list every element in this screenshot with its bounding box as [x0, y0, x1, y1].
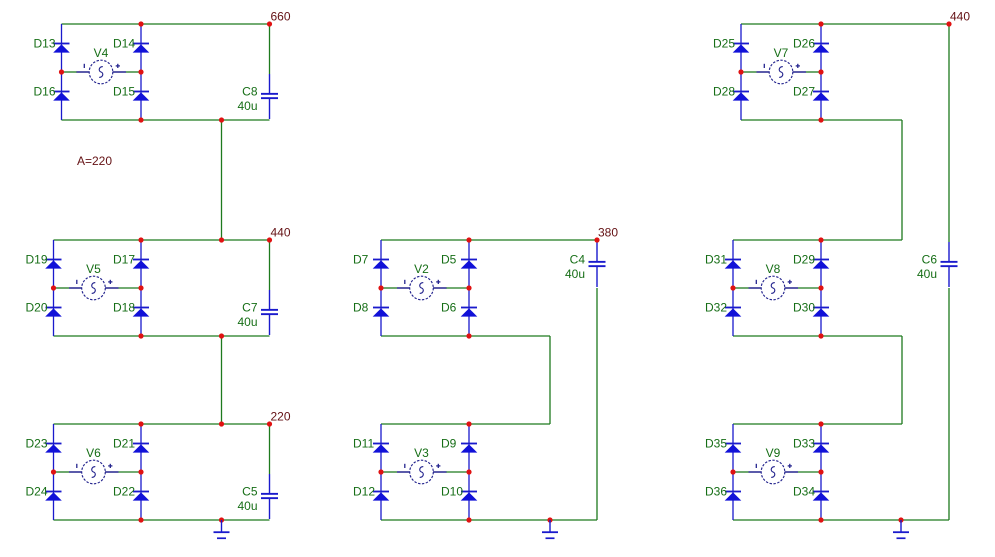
diode D35 — [725, 443, 742, 453]
svg-text:D32: D32 — [705, 301, 727, 315]
svg-text:40u: 40u — [237, 99, 257, 113]
wire right vertical upper (440 net) — [948, 24, 950, 242]
junction node (733,288) — [730, 285, 735, 290]
junction node (821,336) — [818, 333, 823, 338]
diode D26 — [813, 43, 830, 53]
wire cap C8 branch upper — [269, 24, 271, 74]
svg-text:D9: D9 — [441, 437, 457, 451]
wire top rail V4 stage — [62, 23, 270, 25]
minus mark V9 — [755, 464, 757, 468]
wire right vertical lower — [948, 288, 950, 520]
wire diode column D11/D12 (blue) — [380, 424, 382, 520]
wire bottom rail V2 stage — [381, 335, 550, 337]
junction node (469,336) — [466, 333, 471, 338]
wire link 440-stage to 220-stage — [221, 336, 223, 424]
junction node (733,472) — [730, 469, 735, 474]
svg-text:V5: V5 — [86, 262, 101, 276]
svg-text:D29: D29 — [793, 253, 815, 267]
diode D18 — [133, 307, 150, 317]
svg-text:D14: D14 — [113, 37, 135, 51]
svg-text:40u: 40u — [237, 315, 257, 329]
diode D34 — [813, 491, 830, 501]
diode D31 — [725, 259, 742, 269]
wire V6 left stub — [54, 471, 70, 473]
diode D30 — [813, 307, 830, 317]
diode D14 — [133, 43, 150, 53]
plus mark V9 — [788, 464, 792, 468]
wire diode column D25/D28 (blue) — [740, 24, 742, 120]
capacitor C4 — [589, 242, 606, 287]
svg-text:D13: D13 — [34, 37, 56, 51]
svg-text:D35: D35 — [705, 437, 727, 451]
wire cap C4 branch lower — [596, 288, 598, 520]
diode D8 — [373, 307, 390, 317]
svg-text:D12: D12 — [353, 485, 375, 499]
ground — [214, 520, 230, 539]
junction node (53.5,472) — [51, 469, 56, 474]
wire diode column D13/D16 (blue) — [61, 24, 63, 120]
junction node (221.5,424) — [219, 421, 224, 426]
junction node (141,336) — [138, 333, 143, 338]
junction node (469,472) — [466, 469, 471, 474]
svg-text:D28: D28 — [713, 85, 735, 99]
svg-text:A=220: A=220 — [77, 154, 112, 168]
junction node (901,520) — [898, 517, 903, 522]
wire bottom rail V8 stage — [733, 335, 902, 337]
minus mark V3 — [404, 464, 406, 468]
AC source V2 — [397, 276, 447, 300]
svg-text:D27: D27 — [793, 85, 815, 99]
wire top rail V9 stage — [733, 423, 902, 425]
junction node (381,472) — [378, 469, 383, 474]
svg-text:D10: D10 — [441, 485, 463, 499]
AC source V7 — [757, 60, 807, 84]
svg-text:440: 440 — [950, 10, 970, 24]
diode D17 — [133, 259, 150, 269]
plus mark V5 — [108, 280, 112, 284]
plus mark V7 — [796, 64, 800, 68]
svg-text:D26: D26 — [793, 37, 815, 51]
svg-text:D7: D7 — [353, 253, 369, 267]
svg-text:D17: D17 — [113, 253, 135, 267]
wire V8 left stub — [733, 287, 749, 289]
wire V3 left stub — [381, 471, 397, 473]
wire diode column D35/D36 (blue) — [732, 424, 734, 520]
AC source V3 — [397, 460, 447, 484]
junction node (550,520) — [547, 517, 552, 522]
ground — [542, 520, 558, 539]
diode D28 — [733, 91, 750, 101]
junction node (821,472) — [818, 469, 823, 474]
diode D33 — [813, 443, 830, 453]
wire bottom rail V7 stage — [741, 119, 902, 121]
svg-text:V9: V9 — [766, 446, 781, 460]
wire diode column D33/D34 (blue) — [820, 424, 822, 520]
svg-text:C6: C6 — [922, 252, 938, 266]
wire V5 left stub — [54, 287, 70, 289]
junction node (269.5,24) — [267, 21, 272, 26]
plus mark V2 — [436, 280, 440, 284]
AC source V6 — [69, 460, 119, 484]
junction node (141,520) — [138, 517, 143, 522]
junction node (141,240) — [138, 237, 143, 242]
diode D25 — [733, 43, 750, 53]
svg-text:V7: V7 — [774, 46, 789, 60]
svg-text:D20: D20 — [26, 301, 48, 315]
svg-text:V2: V2 — [414, 262, 429, 276]
minus mark V7 — [763, 64, 765, 68]
svg-text:D24: D24 — [26, 485, 48, 499]
wire bottom rail V6 stage — [54, 519, 270, 521]
svg-text:D33: D33 — [793, 437, 815, 451]
svg-text:D25: D25 — [713, 37, 735, 51]
wire V3 right stub — [446, 471, 469, 473]
wire top rail V6 stage — [54, 423, 270, 425]
junction node (141,120) — [138, 117, 143, 122]
junction node (381,288) — [378, 285, 383, 290]
junction node (221.5,240) — [219, 237, 224, 242]
wire top rail V8 stage — [733, 239, 902, 241]
svg-text:40u: 40u — [565, 267, 585, 281]
wire link 660-stage to 440-stage — [221, 120, 223, 240]
wire bottom rail V4 stage — [62, 119, 270, 121]
wire bottom rail V3 stage — [381, 519, 597, 521]
junction node (821,120) — [818, 117, 823, 122]
svg-text:D18: D18 — [113, 301, 135, 315]
junction node (141,288) — [138, 285, 143, 290]
junction node (597,240) — [594, 237, 599, 242]
diode D13 — [53, 43, 70, 53]
diode D29 — [813, 259, 830, 269]
junction node (821,424) — [818, 421, 823, 426]
svg-text:440: 440 — [271, 226, 291, 240]
AC source V9 — [749, 460, 799, 484]
wire diode column D14/D15 (blue) — [140, 24, 142, 120]
svg-text:D36: D36 — [705, 485, 727, 499]
wire diode column D9/D10 (blue) — [468, 424, 470, 520]
svg-text:D11: D11 — [353, 437, 374, 451]
svg-text:D34: D34 — [793, 485, 815, 499]
AC source V4 — [77, 60, 127, 84]
junction node (821,520) — [818, 517, 823, 522]
svg-text:D15: D15 — [113, 85, 135, 99]
wire cap C5 branch upper — [269, 424, 271, 474]
AC source V8 — [749, 276, 799, 300]
wire diode column D21/D22 (blue) — [140, 424, 142, 520]
wire V9 left stub — [733, 471, 749, 473]
svg-text:V3: V3 — [414, 446, 429, 460]
junction node (141,424) — [138, 421, 143, 426]
wire top rail V3 stage — [381, 423, 550, 425]
wire diode column D31/D32 (blue) — [732, 240, 734, 336]
svg-text:D31: D31 — [705, 253, 727, 267]
diode D23 — [45, 443, 62, 453]
wire top rail V5 stage — [54, 239, 270, 241]
diode D5 — [461, 259, 478, 269]
diode D36 — [725, 491, 742, 501]
minus mark V6 — [76, 464, 78, 468]
svg-text:V8: V8 — [766, 262, 781, 276]
plus mark V8 — [788, 280, 792, 284]
minus mark V2 — [404, 280, 406, 284]
svg-text:V4: V4 — [94, 46, 109, 60]
wire V7 right stub — [806, 71, 821, 73]
diode D6 — [461, 307, 478, 317]
wire V4 left stub — [62, 71, 78, 73]
wire bottom rail V9 stage — [733, 519, 949, 521]
svg-text:D23: D23 — [26, 437, 48, 451]
svg-text:D21: D21 — [113, 437, 135, 451]
svg-text:D8: D8 — [353, 301, 369, 315]
ground — [893, 520, 909, 539]
junction node (469,424) — [466, 421, 471, 426]
diode D10 — [461, 491, 478, 501]
wire top rail V7 stage — [741, 23, 949, 25]
junction node (821,72) — [818, 69, 823, 74]
capacitor C7 — [261, 290, 278, 335]
wire V9 right stub — [798, 471, 821, 473]
junction node (269.5,424) — [267, 421, 272, 426]
diode D9 — [461, 443, 478, 453]
minus mark V4 — [83, 64, 85, 68]
diode D32 — [725, 307, 742, 317]
junction node (821,24) — [818, 21, 823, 26]
wire V2 right stub — [446, 287, 469, 289]
minus mark V5 — [76, 280, 78, 284]
diode D22 — [133, 491, 150, 501]
wire V2 left stub — [381, 287, 397, 289]
capacitor C8 — [261, 74, 278, 119]
svg-text:D22: D22 — [113, 485, 135, 499]
capacitor C6 — [941, 242, 958, 287]
diode D11 — [373, 443, 390, 453]
junction node (221.5,120) — [219, 117, 224, 122]
capacitor C5 — [261, 474, 278, 519]
junction node (469,288) — [466, 285, 471, 290]
diode D12 — [373, 491, 390, 501]
svg-text:C7: C7 — [242, 300, 258, 314]
wire diode column D29/D30 (blue) — [820, 240, 822, 336]
AC source V5 — [69, 276, 119, 300]
junction node (469,520) — [466, 517, 471, 522]
diode D7 — [373, 259, 390, 269]
diode D24 — [45, 491, 62, 501]
svg-text:40u: 40u — [917, 267, 937, 281]
junction node (821,288) — [818, 285, 823, 290]
wire V5 right stub — [119, 287, 142, 289]
wire V7 left stub — [741, 71, 757, 73]
svg-text:C5: C5 — [242, 484, 258, 498]
svg-text:380: 380 — [598, 226, 618, 240]
wire diode column D26/D27 (blue) — [820, 24, 822, 120]
plus mark V3 — [436, 464, 440, 468]
svg-text:C8: C8 — [242, 84, 258, 98]
svg-text:D6: D6 — [441, 301, 457, 315]
plus mark V6 — [108, 464, 112, 468]
wire bottom rail V5 stage — [54, 335, 270, 337]
junction node (53.5,288) — [51, 285, 56, 290]
svg-text:D19: D19 — [26, 253, 48, 267]
svg-text:D30: D30 — [793, 301, 815, 315]
svg-text:660: 660 — [271, 10, 291, 24]
svg-text:D16: D16 — [34, 85, 56, 99]
plus mark V4 — [116, 64, 120, 68]
svg-text:V6: V6 — [86, 446, 101, 460]
diode D20 — [45, 307, 62, 317]
svg-text:220: 220 — [271, 410, 291, 424]
svg-text:C4: C4 — [570, 252, 586, 266]
junction node (269.5,240) — [267, 237, 272, 242]
wire V8 right stub — [798, 287, 821, 289]
junction node (141,472) — [138, 469, 143, 474]
minus mark V8 — [755, 280, 757, 284]
junction node (221.5,336) — [219, 333, 224, 338]
diode D19 — [45, 259, 62, 269]
junction node (949,24) — [946, 21, 951, 26]
junction node (221.5,520) — [219, 517, 224, 522]
junction node (821,240) — [818, 237, 823, 242]
junction node (469,240) — [466, 237, 471, 242]
junction node (141,24) — [138, 21, 143, 26]
junction node (61.5,72) — [59, 69, 64, 74]
diode D15 — [133, 91, 150, 101]
wire diode column D17/D18 (blue) — [140, 240, 142, 336]
wire diode column D7/D8 (blue) — [380, 240, 382, 336]
diode D27 — [813, 91, 830, 101]
diode D16 — [53, 91, 70, 101]
svg-text:D5: D5 — [441, 253, 457, 267]
wire link V2 to V3 — [549, 336, 551, 424]
junction node (741,72) — [738, 69, 743, 74]
wire diode column D19/D20 (blue) — [53, 240, 55, 336]
wire V4 right stub — [126, 71, 141, 73]
wire cap C7 branch upper — [269, 240, 271, 290]
wire link V8 to V9 — [901, 336, 903, 424]
diode D21 — [133, 443, 150, 453]
wire link V7 to V8 — [901, 120, 903, 240]
wire V6 right stub — [119, 471, 142, 473]
wire diode column D23/D24 (blue) — [53, 424, 55, 520]
wire diode column D5/D6 (blue) — [468, 240, 470, 336]
junction node (141,72) — [138, 69, 143, 74]
wire top rail V2 stage — [381, 239, 597, 241]
svg-text:40u: 40u — [237, 499, 257, 513]
